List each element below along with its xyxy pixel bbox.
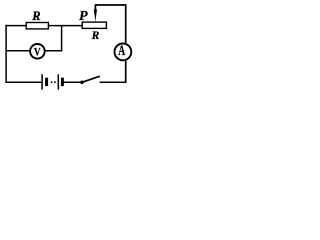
svg-text:A: A bbox=[118, 42, 125, 59]
svg-text:R: R bbox=[91, 29, 100, 42]
wire: voltmeter branch right vertical (junction to top wire) bbox=[61, 25, 63, 51]
wire: bottom wire from battery to switch bbox=[64, 81, 81, 83]
wire: top wire from resistor R to potentiometer bbox=[48, 25, 82, 27]
wire: bottom wire from left corner to battery bbox=[5, 81, 42, 83]
battery (two cells with dots) bbox=[42, 74, 64, 89]
wire: from ammeter bottom to bottom-right corner bbox=[125, 61, 127, 83]
wire: left edge of outer loop bbox=[5, 25, 7, 83]
resistor R bbox=[26, 23, 48, 29]
wire: voltmeter branch left horizontal bbox=[5, 50, 29, 52]
wire: right edge down to ammeter bbox=[125, 4, 127, 43]
potentiometer body R bbox=[82, 22, 106, 28]
voltmeter V bbox=[30, 44, 45, 59]
potentiometer wiper arrow P bbox=[94, 5, 97, 22]
ammeter A bbox=[115, 44, 132, 61]
svg-text:V: V bbox=[34, 45, 41, 58]
wire: from wiper top to top-right corner bbox=[95, 4, 127, 6]
wire: top wire from left corner to resistor R bbox=[5, 25, 26, 27]
switch S (open knife switch) bbox=[80, 76, 100, 84]
svg-text:P: P bbox=[79, 9, 88, 24]
wire: bottom wire from right corner to switch bbox=[100, 81, 127, 83]
wire: voltmeter branch right horizontal bbox=[45, 50, 62, 52]
svg-text:R: R bbox=[31, 9, 40, 23]
